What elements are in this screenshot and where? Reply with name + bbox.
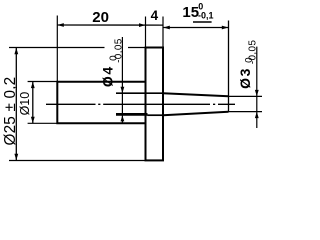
wire: taper bottom extension through flange	[148, 114, 164, 116]
extension line diameter 25 bottom	[9, 160, 146, 162]
svg-text:Ø4: Ø4	[100, 65, 116, 87]
svg-text:-0,1: -0,1	[198, 10, 214, 20]
extension line diameter 10 bottom	[28, 122, 58, 124]
dimension line diameter 10	[32, 82, 34, 124]
svg-text:Ø25 ± 0,2: Ø25 ± 0,2	[2, 77, 19, 146]
svg-text:Ø3: Ø3	[237, 67, 253, 89]
dimension line diameter 25	[15, 48, 17, 161]
svg-text:-0,05: -0,05	[247, 40, 258, 65]
svg-text:4: 4	[151, 8, 159, 23]
centerline	[46, 103, 235, 105]
shaft outline diameter 10	[57, 82, 145, 124]
svg-text:20: 20	[92, 9, 109, 26]
dimension leader diameter 4	[121, 37, 123, 123]
dimension 20 line	[57, 24, 163, 26]
extension line flange left (dim 20/4)	[145, 17, 147, 49]
svg-text:Ø10: Ø10	[18, 92, 32, 116]
svg-text:-0,05: -0,05	[114, 38, 125, 63]
wire: pin top projection line into shaft	[116, 92, 163, 94]
flange outline diameter 25	[146, 48, 164, 161]
extension line pin tip (dim 15)	[228, 21, 230, 113]
tolerance underline bar of 15	[193, 21, 212, 23]
extension line diameter 3 top	[229, 95, 263, 97]
extension line flange right (dim 4/15)	[162, 17, 164, 49]
extension line diameter 25 top	[9, 47, 105, 49]
taper bottom edge	[163, 112, 229, 116]
dimension leader diameter 3	[256, 47, 258, 128]
extension line left of shaft (dim 20)	[56, 16, 58, 83]
extension line diameter 3 bottom	[229, 111, 263, 113]
dimension 15 line	[163, 27, 229, 29]
taper top edge	[163, 93, 229, 96]
wire: pin bottom projection line into shaft	[116, 113, 148, 116]
extension line diameter 10 top	[28, 81, 58, 83]
svg-text:15: 15	[182, 4, 199, 21]
